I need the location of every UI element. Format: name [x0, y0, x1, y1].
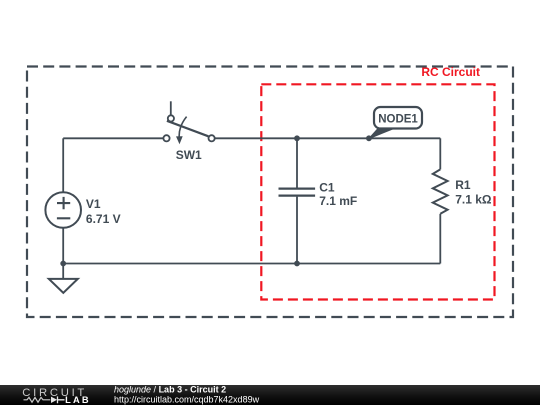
logo resistor squiggle — [24, 397, 51, 402]
svg-text:7.1 kΩ: 7.1 kΩ — [455, 193, 492, 207]
wire top-right segment — [215, 137, 441, 139]
junction at V1 bottom — [60, 261, 66, 267]
switch SW1 — [163, 101, 214, 144]
wire C1 top lead — [296, 138, 298, 187]
svg-text:hoglunde / Lab 3 - Circuit 2: hoglunde / Lab 3 - Circuit 2 — [114, 385, 226, 395]
svg-text:C1: C1 — [319, 181, 335, 195]
voltage source V1 — [45, 192, 81, 228]
svg-text:http://circuitlab.com/cqdb7k42: http://circuitlab.com/cqdb7k42xd89w — [114, 394, 260, 404]
wire C1 bottom lead — [296, 197, 298, 264]
wire R1 top lead — [439, 138, 441, 169]
wire bottom segment — [63, 263, 440, 265]
wire top-left segment — [63, 137, 163, 139]
ground — [49, 279, 78, 293]
logo diode — [51, 397, 57, 403]
junction at C1 top — [294, 135, 300, 141]
resistor R1 — [433, 169, 448, 213]
capacitor C1 — [279, 189, 316, 196]
wire V1 bottom lead — [62, 228, 64, 264]
svg-text:V1: V1 — [86, 197, 101, 211]
wire ground stub — [62, 264, 64, 280]
node dot NODE1 — [366, 135, 372, 141]
footer bar — [0, 385, 540, 405]
svg-text:SW1: SW1 — [176, 148, 202, 162]
svg-text:R1: R1 — [455, 178, 471, 192]
svg-text:LAB: LAB — [65, 395, 91, 405]
svg-text:NODE1: NODE1 — [378, 113, 418, 125]
RC Circuit region box — [261, 84, 494, 299]
wire R1 bottom lead — [439, 214, 441, 264]
node NODE1 callout — [369, 107, 422, 139]
wire V1 top lead — [62, 138, 64, 192]
svg-text:RC Circuit: RC Circuit — [421, 65, 480, 79]
junction at C1 bottom — [294, 261, 300, 267]
svg-text:7.1 mF: 7.1 mF — [319, 194, 357, 208]
svg-text:6.71 V: 6.71 V — [86, 212, 121, 226]
